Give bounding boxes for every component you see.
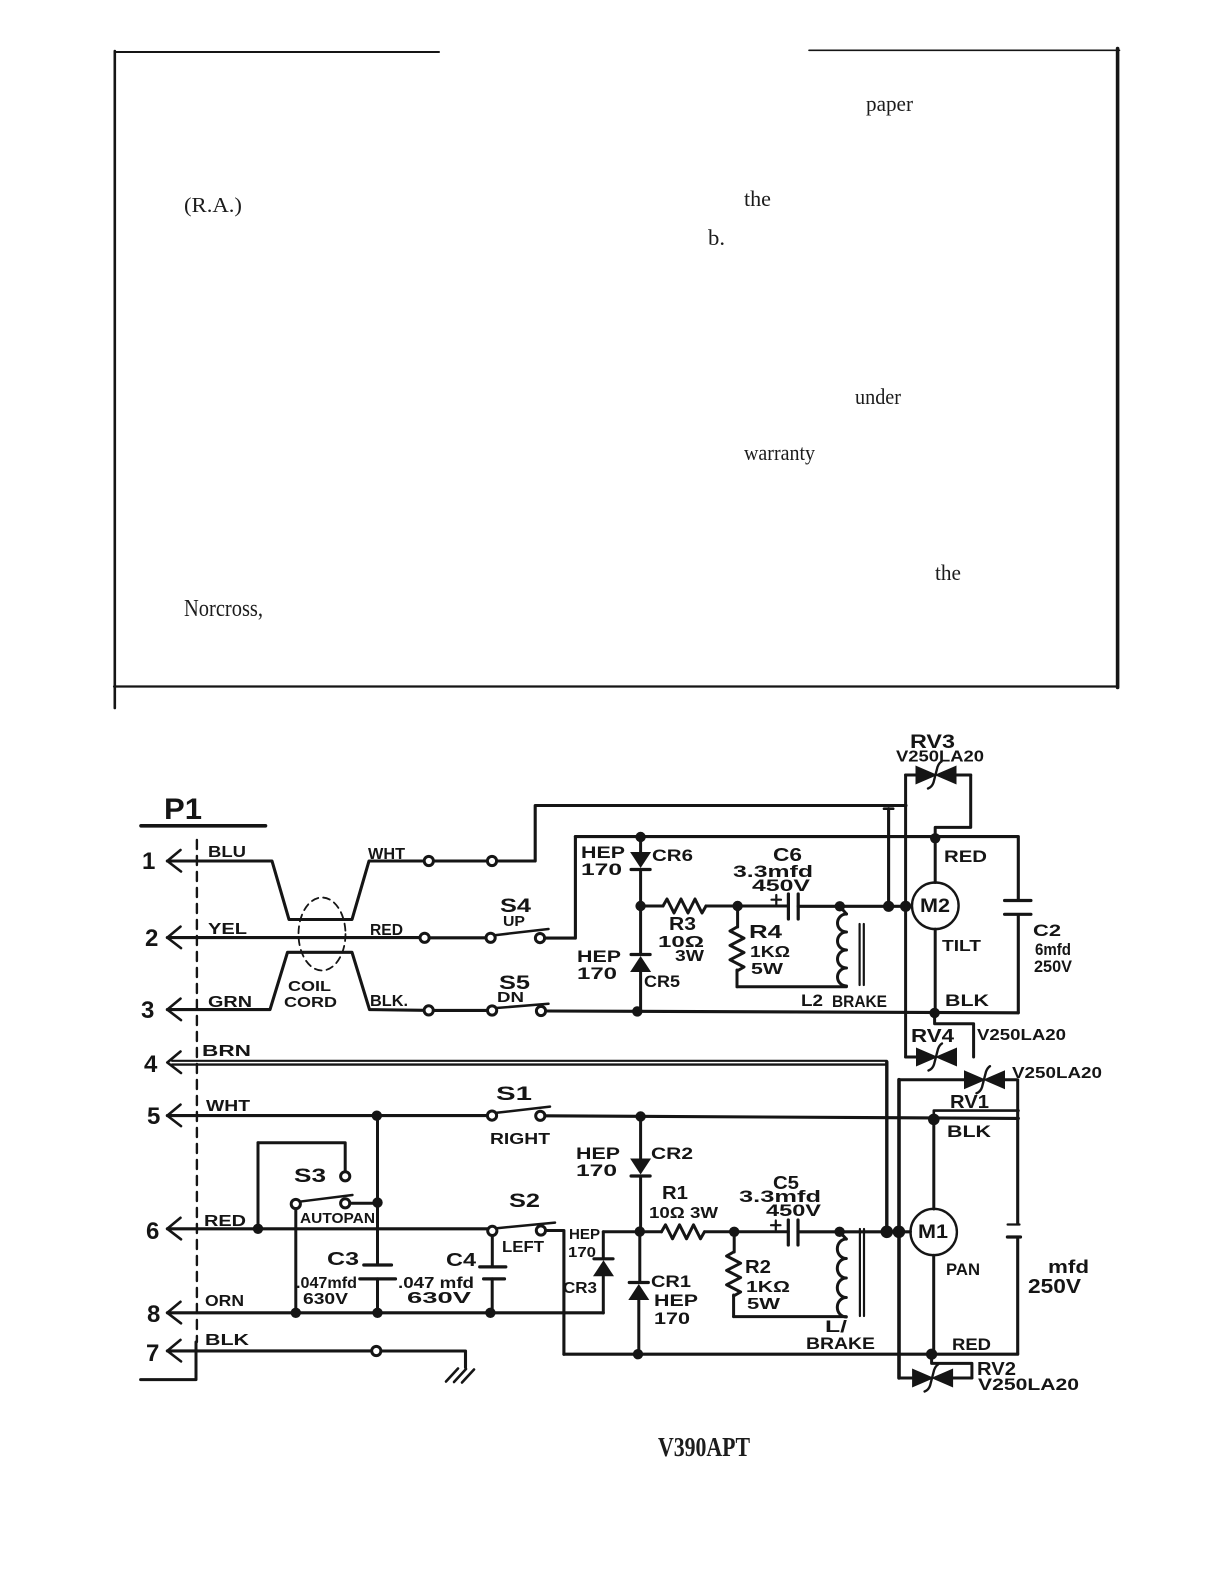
capacitor C3 bottom plate bbox=[360, 1277, 396, 1280]
wire C3 to ORN row bbox=[376, 1279, 379, 1313]
varistor RV2 symbol bbox=[912, 1369, 934, 1388]
terminal circle row7 bbox=[372, 1346, 381, 1355]
svg-text:V250LA20: V250LA20 bbox=[978, 1376, 1079, 1394]
wire CR1 upper bbox=[638, 1232, 641, 1281]
wire long vertical to M2 node bbox=[887, 809, 890, 907]
node dot ORN at C4 bbox=[485, 1308, 495, 1318]
document frame top edge left segment bbox=[115, 51, 439, 53]
wire pan box right edge lower bbox=[1016, 1238, 1019, 1354]
svg-text:CORD: CORD bbox=[284, 994, 337, 1011]
svg-text:WHT: WHT bbox=[206, 1098, 251, 1115]
svg-text:6mfd: 6mfd bbox=[1035, 941, 1071, 959]
svg-text:5: 5 bbox=[147, 1103, 160, 1130]
wire pin8 row to CR3 bbox=[167, 1311, 603, 1314]
svg-text:HEP: HEP bbox=[654, 1292, 698, 1310]
svg-text:6: 6 bbox=[146, 1218, 159, 1245]
wire CR2 to node X bbox=[639, 1176, 642, 1232]
svg-text:V390APT: V390APT bbox=[658, 1432, 750, 1462]
resistor R3 bbox=[663, 899, 706, 913]
wire R2/L1 bottom bbox=[734, 1315, 847, 1318]
diode CR1 (HEP170) bbox=[628, 1284, 649, 1300]
svg-text:paper: paper bbox=[866, 91, 914, 116]
switch S1 right contact bbox=[536, 1111, 545, 1120]
node dot top edge at CR6 bbox=[635, 832, 645, 842]
wire C5 to L1 node bbox=[798, 1230, 910, 1233]
wire BRN heavy rail lower stroke bbox=[172, 1063, 887, 1065]
svg-text:DN: DN bbox=[497, 989, 524, 1006]
wire RV1 right jog bbox=[1005, 1080, 1018, 1111]
svg-text:RED: RED bbox=[952, 1335, 991, 1354]
node dot ORN at C3 bbox=[372, 1308, 382, 1318]
svg-text:RV4: RV4 bbox=[911, 1026, 954, 1046]
wire S2 output drop bbox=[546, 1231, 564, 1355]
wire tilt box top edge bbox=[575, 835, 1018, 838]
svg-text:RED: RED bbox=[370, 922, 403, 939]
node dot M1 left at RV1 leg bbox=[893, 1226, 906, 1239]
wire pin6 row to S2 bbox=[167, 1227, 487, 1230]
svg-text:630V: 630V bbox=[303, 1291, 349, 1308]
svg-text:RV1: RV1 bbox=[950, 1092, 989, 1112]
node dot S3/C3 branch bbox=[372, 1197, 382, 1207]
diode CR3 (HEP170) bbox=[593, 1260, 614, 1276]
svg-text:8: 8 bbox=[147, 1301, 160, 1328]
wire CR5 lower to bottom edge bbox=[639, 972, 642, 1011]
svg-text:the: the bbox=[744, 186, 771, 211]
svg-text:5W: 5W bbox=[747, 1296, 781, 1313]
svg-text:3: 3 bbox=[141, 997, 154, 1024]
svg-text:CR2: CR2 bbox=[651, 1144, 693, 1163]
wire RV2 jog from M1 RED node bbox=[932, 1354, 972, 1378]
switch S5 left contact bbox=[488, 1006, 497, 1015]
svg-text:LEFT: LEFT bbox=[502, 1239, 545, 1256]
node dot X (CR1/CR2/R1) bbox=[635, 1226, 645, 1236]
wire CR3 top link to node X bbox=[603, 1230, 640, 1233]
svg-text:WHT: WHT bbox=[368, 846, 406, 863]
resistor R4 bbox=[730, 927, 744, 971]
wire RV3 left leg (shared with RV4) bbox=[904, 775, 907, 1057]
svg-text:4: 4 bbox=[144, 1051, 158, 1078]
svg-text:S1: S1 bbox=[496, 1084, 533, 1105]
svg-text:R3: R3 bbox=[669, 914, 696, 934]
svg-text:250V: 250V bbox=[1034, 958, 1072, 976]
switch S2 left contact bbox=[488, 1226, 497, 1235]
diode CR2 (HEP170) bbox=[630, 1159, 651, 1175]
document frame right edge bbox=[1116, 49, 1120, 688]
diode CR6 (HEP170) bbox=[630, 852, 651, 868]
wire pin1 to coil cord bbox=[167, 861, 424, 920]
wire BRN drop to M1 node bbox=[885, 1062, 888, 1232]
svg-text:warranty: warranty bbox=[744, 440, 815, 465]
inductor L2 brake coil bbox=[838, 914, 847, 986]
wire RV3 right stub bbox=[957, 774, 971, 777]
wire RV2 left stub bbox=[899, 1377, 912, 1380]
node dot L2 top bbox=[835, 901, 845, 911]
connector P1 underline bbox=[141, 824, 266, 828]
capacitor C6 plus sign bbox=[772, 895, 782, 905]
svg-text:7: 7 bbox=[146, 1340, 159, 1367]
wire row1 between terminals bbox=[434, 859, 488, 862]
node dot top edge at M2 bbox=[930, 833, 940, 843]
motor M2 circle bbox=[912, 883, 959, 930]
svg-text:BRAKE: BRAKE bbox=[832, 993, 887, 1011]
wire M2 bottom lead bbox=[934, 929, 937, 1013]
svg-text:S3: S3 bbox=[294, 1166, 326, 1187]
inductor L1 core bars bbox=[860, 1229, 864, 1316]
svg-text:170: 170 bbox=[654, 1310, 690, 1328]
switch S3 right contact bbox=[341, 1199, 350, 1208]
node dot M1 top (BLK node) bbox=[928, 1114, 940, 1126]
document frame bottom edge bbox=[114, 685, 1117, 687]
node dot M1 bottom (RED node) bbox=[926, 1349, 937, 1360]
wire L1 top jog bbox=[840, 1232, 847, 1239]
terminal circle row1 a bbox=[424, 856, 433, 865]
svg-text:C3: C3 bbox=[327, 1249, 359, 1269]
node dot row6 at S3 loop bbox=[253, 1224, 263, 1234]
switch S1 blade bbox=[497, 1107, 550, 1113]
switch S5 right contact bbox=[536, 1006, 545, 1015]
svg-text:170: 170 bbox=[568, 1244, 596, 1261]
capacitor C6 left plate bbox=[787, 894, 790, 919]
capacitor C6 right plate bbox=[797, 894, 800, 919]
wire tilt box right edge upper bbox=[1017, 838, 1020, 899]
pin 8 arrow bbox=[167, 1302, 181, 1324]
svg-text:BLK: BLK bbox=[947, 1122, 992, 1141]
switch S4 left contact bbox=[486, 933, 495, 942]
svg-text:C2: C2 bbox=[1033, 921, 1061, 940]
wire RV2 right stub bbox=[953, 1377, 972, 1380]
svg-text:CR6: CR6 bbox=[652, 846, 693, 865]
wire S3 to C3 vertical bbox=[350, 1202, 378, 1205]
svg-text:10Ω 3W: 10Ω 3W bbox=[649, 1205, 719, 1222]
wire tilt box right edge lower bbox=[1017, 916, 1020, 1013]
wire row3 between terminals bbox=[433, 1009, 487, 1012]
wire S3 loop left leg bbox=[257, 1143, 260, 1229]
svg-text:L/: L/ bbox=[825, 1318, 848, 1336]
svg-text:CR5: CR5 bbox=[644, 972, 680, 991]
wire M1 bottom lead bbox=[932, 1255, 935, 1354]
svg-text:TILT: TILT bbox=[942, 938, 981, 955]
wire node A to R3 bbox=[641, 905, 663, 908]
capacitor C2 bottom plate bbox=[1005, 913, 1031, 916]
svg-text:1KΩ: 1KΩ bbox=[750, 944, 790, 961]
switch S3 blade bbox=[300, 1195, 352, 1202]
node dot bottom edge at M2 bbox=[929, 1008, 939, 1018]
wire pin2 row bbox=[167, 936, 420, 939]
wire M1 top lead bbox=[932, 1119, 935, 1209]
wire row5 branch down to C3 bbox=[376, 1116, 379, 1265]
wire RV1 lower link bbox=[934, 1111, 1019, 1120]
svg-text:COIL: COIL bbox=[288, 978, 331, 995]
wire R4/L2 bottom bbox=[737, 985, 846, 988]
svg-text:V250LA20: V250LA20 bbox=[1012, 1065, 1102, 1082]
svg-text:P1: P1 bbox=[164, 793, 202, 826]
connector P1 bottom bracket bbox=[141, 1342, 196, 1380]
node dot M1 left at BRN drop bbox=[881, 1226, 894, 1239]
svg-text:3W: 3W bbox=[675, 948, 705, 965]
capacitor C4 bottom plate bbox=[484, 1277, 505, 1280]
wire pin3 to coil cord bbox=[167, 952, 424, 1010]
svg-text:under: under bbox=[855, 384, 902, 409]
switch S2 blade bbox=[497, 1223, 555, 1229]
wire R4 lower lead bbox=[736, 970, 739, 987]
diode CR5 (HEP170) bbox=[630, 956, 651, 972]
wire row7 to ground bbox=[381, 1351, 466, 1368]
wire CR6 vertical upper bbox=[639, 837, 642, 853]
svg-text:the: the bbox=[935, 560, 961, 585]
svg-text:R2: R2 bbox=[745, 1257, 771, 1277]
svg-text:BLK: BLK bbox=[945, 991, 990, 1010]
svg-text:170: 170 bbox=[581, 860, 622, 879]
switch S4 right contact bbox=[535, 934, 544, 943]
svg-text:450V: 450V bbox=[766, 1201, 822, 1220]
document frame left edge bbox=[114, 51, 117, 708]
svg-text:R1: R1 bbox=[662, 1183, 688, 1203]
svg-text:RED: RED bbox=[944, 847, 987, 866]
wire node B to C6 bbox=[738, 905, 789, 908]
pin 3 arrow bbox=[167, 999, 181, 1021]
wire M2 top lead bbox=[934, 838, 937, 882]
svg-text:250V: 250V bbox=[1028, 1276, 1082, 1298]
wire CR2 vertical upper bbox=[639, 1117, 642, 1159]
wire S1 to pan box top right bbox=[545, 1116, 1019, 1119]
varistor RV1 symbol bbox=[964, 1070, 986, 1089]
svg-text:170: 170 bbox=[577, 964, 617, 983]
wire S5 row / tilt box bottom edge bbox=[546, 1011, 1019, 1013]
node dot L1 top bbox=[834, 1227, 844, 1237]
svg-text:BRAKE: BRAKE bbox=[806, 1335, 875, 1353]
inductor L2 core bars bbox=[860, 924, 864, 985]
svg-text:V250LA20: V250LA20 bbox=[977, 1027, 1066, 1044]
capacitor C5 plus sign bbox=[771, 1221, 781, 1231]
svg-text:BLK.: BLK. bbox=[370, 993, 408, 1010]
wire RV4 left stub bbox=[906, 1056, 916, 1059]
wire CR1 lower to pan bottom row bbox=[637, 1300, 640, 1354]
wire S3 left contact drop to ORN row bbox=[294, 1209, 297, 1313]
chassis ground bbox=[446, 1369, 474, 1383]
switch S3 upper contact bbox=[341, 1172, 350, 1181]
pin 6 arrow bbox=[167, 1218, 181, 1240]
svg-text:450V: 450V bbox=[752, 876, 811, 895]
svg-text:S2: S2 bbox=[509, 1191, 540, 1212]
node dot M2 left at RV3 leg bbox=[900, 901, 911, 912]
svg-text:1KΩ: 1KΩ bbox=[746, 1279, 790, 1296]
node dot M2 left at long vertical bbox=[883, 901, 894, 912]
switch S3 left contact bbox=[291, 1199, 300, 1208]
svg-text:AUTOPAN: AUTOPAN bbox=[300, 1210, 375, 1227]
wire BRN heavy rail upper stroke bbox=[172, 1060, 887, 1062]
svg-text:BLK: BLK bbox=[205, 1332, 250, 1349]
pin 2 arrow bbox=[167, 927, 181, 949]
pin 1 arrow bbox=[167, 850, 181, 872]
inductor L1 brake coil bbox=[837, 1239, 846, 1317]
wire node X to R1 bbox=[640, 1230, 662, 1233]
node dot B (R3/R4/C6) bbox=[732, 901, 742, 911]
wire R3 to node B bbox=[706, 905, 738, 908]
svg-text:HEP: HEP bbox=[569, 1226, 600, 1243]
wire CR5 upper bbox=[639, 906, 642, 953]
wire RV3 left stub bbox=[906, 774, 916, 777]
wire RV3 right leg jog to top edge bbox=[935, 775, 971, 838]
capacitor C1 bottom plate bbox=[1007, 1235, 1020, 1238]
capacitor C5 left plate bbox=[787, 1220, 790, 1245]
svg-text:630V: 630V bbox=[407, 1290, 472, 1307]
wire CR3 vertical lower to ORN row bbox=[602, 1277, 605, 1314]
svg-text:L2: L2 bbox=[801, 992, 823, 1010]
capacitor C3 top plate bbox=[364, 1263, 392, 1266]
wire R2 lower lead bbox=[732, 1295, 735, 1317]
switch S4 blade bbox=[495, 929, 549, 935]
svg-text:BLU: BLU bbox=[208, 844, 246, 861]
pin 5 arrow bbox=[167, 1105, 181, 1127]
svg-text:5W: 5W bbox=[751, 961, 784, 978]
wire RV1 left leg (shared with RV2) bbox=[897, 1080, 901, 1378]
wire pan bottom row bbox=[564, 1353, 1018, 1356]
wire S4 to tilt box left edge bbox=[545, 837, 576, 939]
svg-text:CR3: CR3 bbox=[563, 1280, 597, 1297]
svg-text:UP: UP bbox=[503, 913, 525, 930]
document frame top edge right segment bbox=[809, 49, 1120, 51]
svg-text:2: 2 bbox=[145, 925, 158, 952]
wire pin7 row bbox=[167, 1349, 371, 1352]
svg-text:mfd: mfd bbox=[1048, 1257, 1089, 1277]
switch S5 blade bbox=[496, 1004, 548, 1008]
wire R2 upper lead bbox=[733, 1232, 736, 1252]
coil cord ellipse bbox=[299, 898, 346, 971]
wire RV1 left wire bbox=[899, 1078, 964, 1081]
node dot A (CR6/CR5/R3) bbox=[635, 901, 645, 911]
terminal circle row1 b bbox=[487, 856, 496, 865]
varistor RV3 symbol bbox=[916, 766, 938, 785]
svg-text:CR1: CR1 bbox=[651, 1273, 691, 1291]
svg-text:1: 1 bbox=[142, 848, 155, 875]
wire row1 to top rail bbox=[497, 806, 906, 862]
svg-text:BRN: BRN bbox=[202, 1043, 251, 1060]
wire C6 to L2 node bbox=[798, 905, 910, 908]
switch S1 left contact bbox=[487, 1111, 496, 1120]
wire L2 top jog bbox=[840, 906, 847, 914]
pin 4 arrow bbox=[167, 1052, 181, 1074]
switch S2 right contact bbox=[536, 1226, 545, 1235]
switch S3 loop top bbox=[258, 1143, 345, 1172]
capacitor C5 right plate bbox=[796, 1220, 799, 1245]
svg-text:R4: R4 bbox=[749, 922, 782, 942]
node dot row5 at autopan branch bbox=[372, 1111, 382, 1121]
wire node Y to C5 bbox=[734, 1230, 788, 1233]
svg-text:ORN: ORN bbox=[205, 1293, 244, 1310]
wire S2 left contact to C4 bbox=[491, 1236, 494, 1267]
terminal circle row2 bbox=[420, 933, 429, 942]
node dot ORN at S3 drop bbox=[291, 1308, 301, 1318]
node dot pan bottom at CR1 bbox=[633, 1349, 643, 1359]
svg-text:YEL: YEL bbox=[208, 921, 247, 938]
varistor RV4 symbol bbox=[916, 1048, 938, 1067]
wire C4 to ORN row bbox=[491, 1279, 494, 1313]
node dot row5 at CR2 branch bbox=[635, 1111, 645, 1121]
svg-text:PAN: PAN bbox=[946, 1261, 980, 1279]
resistor R1 bbox=[662, 1225, 705, 1239]
capacitor C4 top plate bbox=[480, 1265, 506, 1268]
wire CR3 vertical upper bbox=[602, 1232, 605, 1259]
tap cap on long vertical bbox=[884, 807, 893, 810]
capacitor C2 top plate bbox=[1005, 899, 1031, 902]
svg-text:RIGHT: RIGHT bbox=[490, 1131, 551, 1148]
wire pan box right edge upper bbox=[1016, 1111, 1019, 1224]
node dot bottom edge at CR5 bbox=[632, 1006, 642, 1016]
svg-text:C4: C4 bbox=[446, 1250, 476, 1270]
svg-text:Norcross,: Norcross, bbox=[184, 596, 263, 622]
svg-text:(R.A.): (R.A.) bbox=[184, 193, 242, 217]
wire pin5 row to S1 bbox=[167, 1114, 487, 1117]
svg-text:b.: b. bbox=[708, 225, 725, 250]
pin 7 arrow bbox=[167, 1340, 181, 1362]
node dot Y (R1/R2/C5) bbox=[729, 1227, 739, 1237]
svg-text:170: 170 bbox=[576, 1161, 617, 1180]
wire R1 to node Y bbox=[705, 1230, 735, 1233]
connector P1 dashed body bbox=[196, 840, 198, 1342]
wire CR6 to node A bbox=[639, 870, 642, 907]
resistor R2 bbox=[727, 1252, 741, 1296]
svg-text:M1: M1 bbox=[918, 1222, 948, 1243]
motor M1 circle bbox=[911, 1209, 957, 1255]
wire R4 upper lead bbox=[736, 906, 739, 927]
capacitor C1 top plate bbox=[1008, 1223, 1020, 1225]
svg-text:.047mfd: .047mfd bbox=[296, 1275, 357, 1292]
wire row2 terminal to S4 bbox=[429, 936, 486, 939]
svg-text:M2: M2 bbox=[920, 896, 950, 917]
wire RV4 jog from M2 BLK node bbox=[935, 1013, 974, 1057]
terminal circle row3 a bbox=[424, 1006, 433, 1015]
